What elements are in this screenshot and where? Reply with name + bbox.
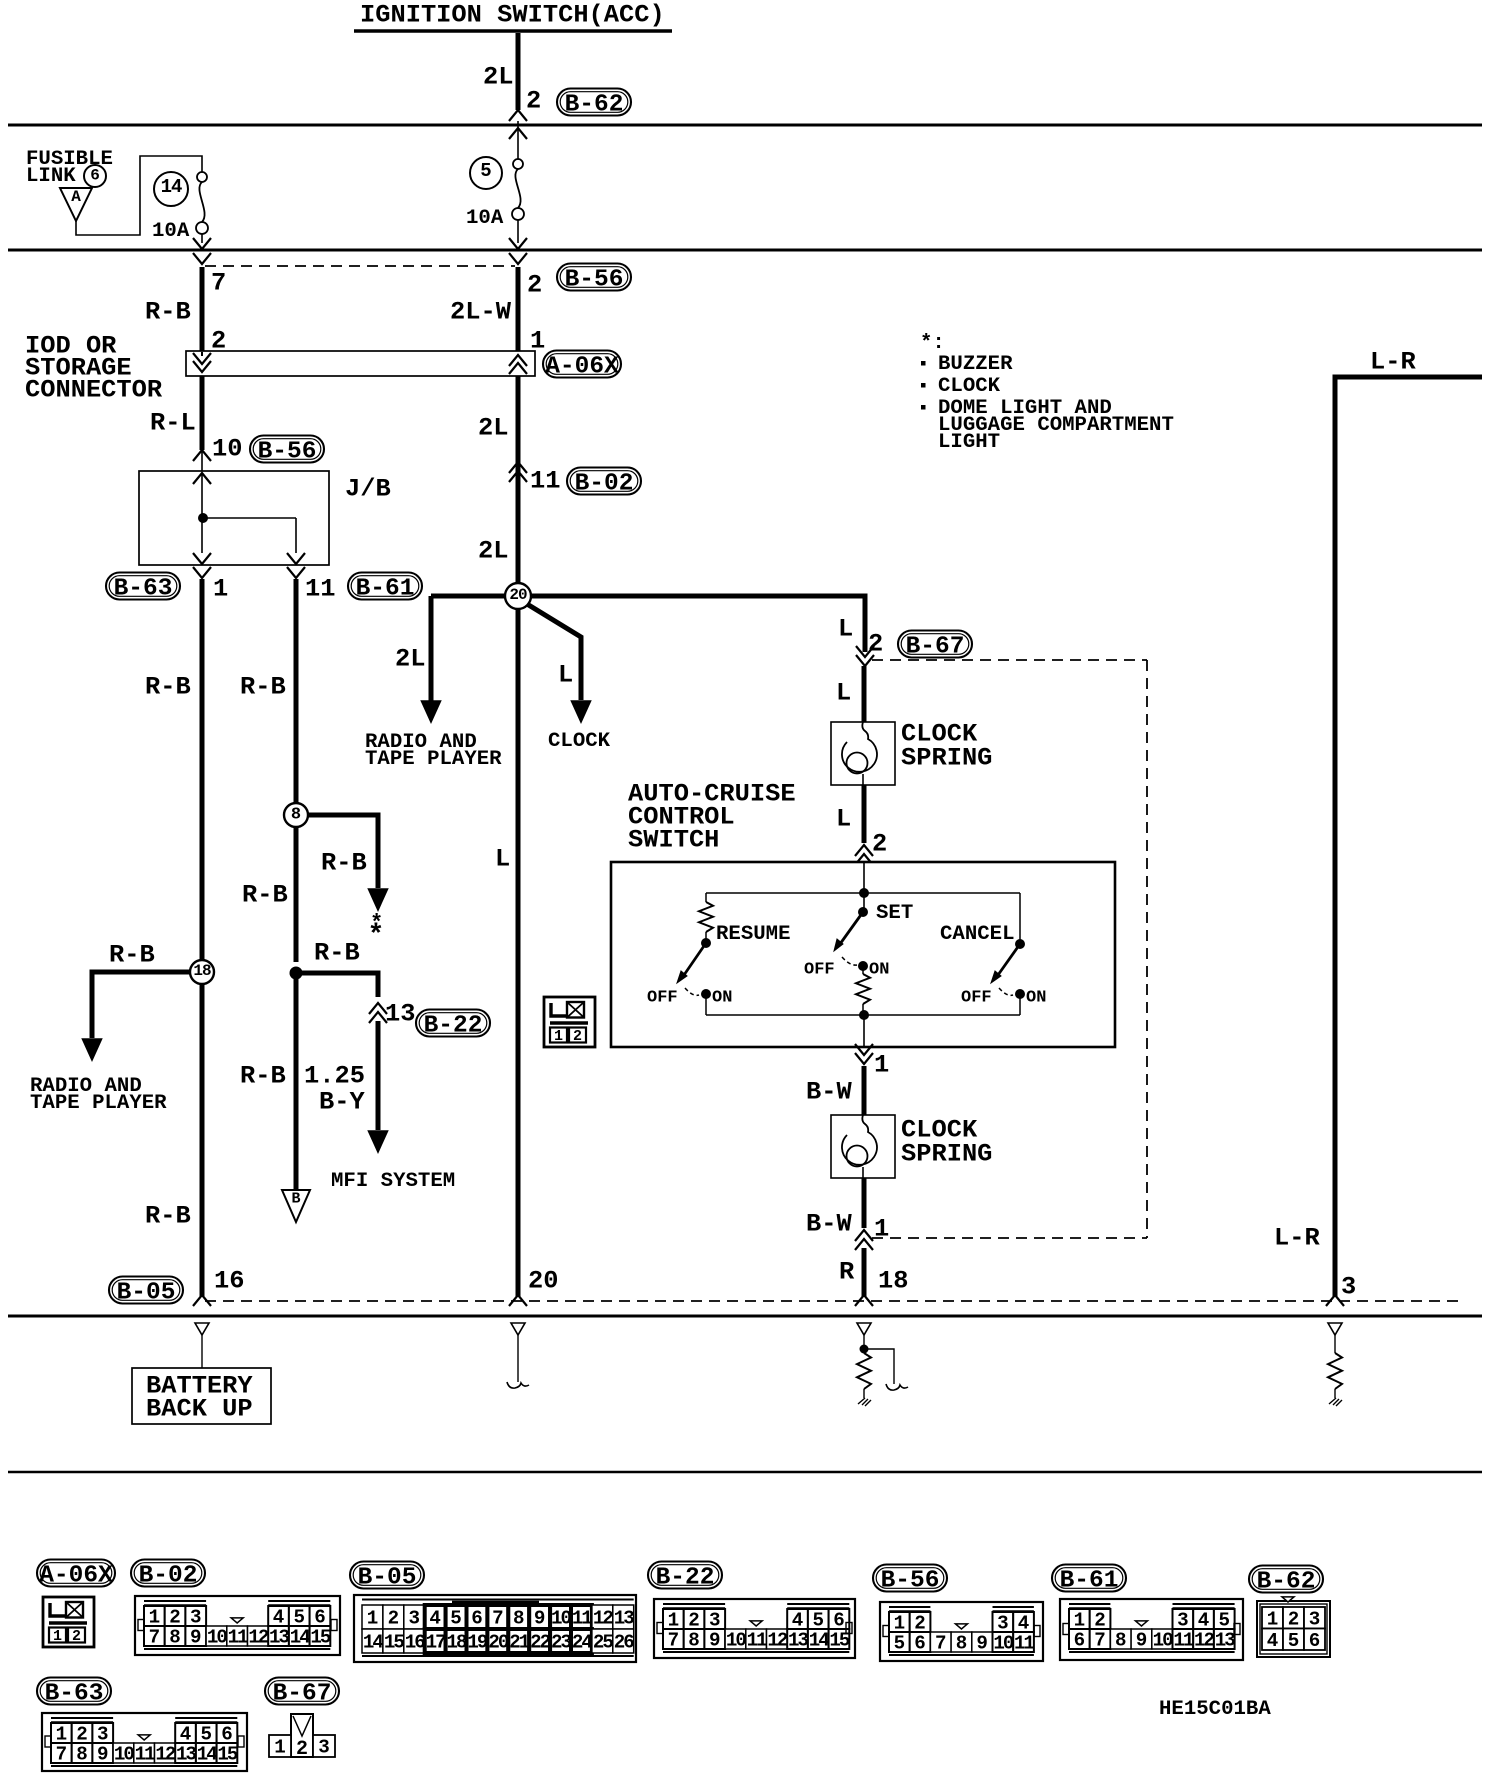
connector B-56 top xyxy=(557,264,631,291)
connector pinout A-06X xyxy=(43,1597,94,1647)
svg-text:2: 2 xyxy=(388,1608,400,1630)
svg-text:8: 8 xyxy=(688,1630,700,1652)
svg-text:11: 11 xyxy=(1173,1630,1194,1652)
fuse 14 symbol xyxy=(197,172,207,182)
wire B-W upper xyxy=(862,1066,867,1115)
ground 18: resistor network xyxy=(857,1323,871,1335)
svg-text:L-R: L-R xyxy=(1274,1224,1320,1253)
svg-text:2L: 2L xyxy=(478,537,508,566)
J/B exit chevrons xyxy=(193,553,211,564)
connector pinout B-62 label xyxy=(1249,1566,1323,1593)
svg-text:10: 10 xyxy=(993,1633,1014,1655)
wire 2L to junction 20 xyxy=(516,376,521,596)
svg-text:B-67: B-67 xyxy=(273,1681,332,1708)
svg-text:OFF: OFF xyxy=(961,989,992,1008)
junction 18 circle xyxy=(190,960,214,984)
svg-text:2: 2 xyxy=(1288,1608,1300,1630)
connector pinout B-02 label xyxy=(131,1560,205,1587)
svg-text:B-63: B-63 xyxy=(114,576,173,603)
junction dot middle R-B xyxy=(290,967,303,980)
svg-text:R-B: R-B xyxy=(242,881,288,910)
svg-text:2: 2 xyxy=(72,1628,81,1645)
svg-text:5: 5 xyxy=(450,1608,462,1630)
svg-text:B-02: B-02 xyxy=(139,1563,198,1590)
svg-text:24: 24 xyxy=(572,1632,593,1654)
svg-text:*:: *: xyxy=(920,332,945,355)
fusible link triangle A xyxy=(60,188,92,221)
svg-text:12: 12 xyxy=(593,1608,614,1630)
svg-text:IGNITION SWITCH(ACC): IGNITION SWITCH(ACC) xyxy=(360,1,665,30)
svg-text:11: 11 xyxy=(305,575,335,604)
bus line 1 (page divider) xyxy=(8,124,1482,127)
svg-text:6: 6 xyxy=(90,167,100,185)
svg-text:R-B: R-B xyxy=(145,298,191,327)
svg-text:14: 14 xyxy=(197,1744,218,1766)
svg-text:9: 9 xyxy=(709,1630,721,1652)
inline connector icon (column switch) xyxy=(544,997,595,1047)
clock spring 2 box xyxy=(831,1115,895,1178)
svg-text:16: 16 xyxy=(405,1632,426,1654)
branch to radio and tape player (left) xyxy=(92,972,190,975)
svg-text:8: 8 xyxy=(76,1744,88,1766)
connector pinout B-63 label xyxy=(37,1678,111,1705)
svg-text:LINK: LINK xyxy=(26,165,76,188)
svg-text:20: 20 xyxy=(509,586,527,604)
svg-text:B-W: B-W xyxy=(806,1210,852,1239)
svg-text:7: 7 xyxy=(935,1633,947,1655)
wire L below clock spring 1 xyxy=(862,785,867,843)
connector B-67 pill xyxy=(898,631,972,658)
junction circle 20 xyxy=(516,608,521,1297)
junction block J/B box xyxy=(139,471,329,565)
harness dashed boundary bottom xyxy=(205,1300,1460,1302)
svg-text:8: 8 xyxy=(291,806,301,825)
svg-text:1: 1 xyxy=(554,1028,563,1045)
branch 2L to radio and tape player xyxy=(429,596,434,702)
svg-text:B-22: B-22 xyxy=(424,1013,483,1040)
clock branch diagonal xyxy=(527,604,581,700)
svg-text:14: 14 xyxy=(161,176,182,198)
fusible link circled 6 xyxy=(84,165,106,187)
RESUME switch resistor xyxy=(699,902,713,932)
svg-text:B-05: B-05 xyxy=(117,1280,176,1307)
wire R-B pin7 chevron xyxy=(193,253,211,264)
svg-text:1: 1 xyxy=(367,1608,379,1630)
svg-text:L-R: L-R xyxy=(1370,348,1416,377)
clock spring 1 spiral xyxy=(842,722,877,772)
bus line 3 xyxy=(8,1315,1482,1318)
connector A-06X xyxy=(543,351,621,378)
svg-text:2L: 2L xyxy=(395,645,425,674)
wire L into clock spring 1 xyxy=(862,666,867,722)
svg-text:2: 2 xyxy=(526,87,541,116)
svg-text:6: 6 xyxy=(471,1608,483,1630)
svg-text:5: 5 xyxy=(480,160,491,182)
wire 2L-W xyxy=(516,267,521,352)
svg-text:OFF: OFF xyxy=(804,961,835,980)
svg-text:B-56: B-56 xyxy=(881,1568,940,1595)
wire B-W lower xyxy=(862,1178,867,1228)
svg-text:12: 12 xyxy=(155,1744,176,1766)
branch to MFI system xyxy=(296,973,378,997)
svg-text:1: 1 xyxy=(53,1628,62,1645)
svg-text:B-63: B-63 xyxy=(45,1681,104,1708)
svg-text:1.25: 1.25 xyxy=(304,1062,365,1091)
svg-text:18: 18 xyxy=(878,1267,908,1296)
wire R-B upper xyxy=(200,267,205,352)
svg-text:BACK UP: BACK UP xyxy=(146,1395,253,1424)
svg-text:A-06X: A-06X xyxy=(545,354,619,381)
svg-text:20: 20 xyxy=(528,1267,558,1296)
harness dashed boundary top xyxy=(205,265,515,267)
svg-text:2: 2 xyxy=(872,830,887,859)
connector B-22 pill xyxy=(416,1010,490,1037)
clock spring 1 box xyxy=(831,722,895,785)
auto-cruise switch outer box xyxy=(611,862,1115,1047)
connector pinout B-61 label xyxy=(1052,1565,1126,1592)
svg-text:1: 1 xyxy=(874,1215,889,1244)
svg-text:A-06X: A-06X xyxy=(39,1563,113,1590)
svg-text:B-02: B-02 xyxy=(575,471,634,498)
svg-text:26: 26 xyxy=(614,1632,635,1654)
clock spring 2 spiral xyxy=(842,1115,877,1165)
fuse 5 circle label xyxy=(470,157,502,189)
connector pinout B-22 xyxy=(654,1599,855,1658)
svg-text:4: 4 xyxy=(429,1608,441,1630)
svg-text:15: 15 xyxy=(310,1627,331,1649)
wire R-B middle (to junction 8) xyxy=(294,579,299,804)
svg-text:22: 22 xyxy=(530,1632,551,1654)
ground triangle B xyxy=(294,979,299,1190)
svg-text:12: 12 xyxy=(1194,1630,1215,1652)
wire R-L xyxy=(200,376,205,450)
svg-text:R-B: R-B xyxy=(314,939,360,968)
svg-text:L: L xyxy=(558,661,573,690)
svg-text:12: 12 xyxy=(767,1630,788,1652)
svg-text:7: 7 xyxy=(1094,1630,1106,1652)
dashed box around column/clock-spring xyxy=(872,659,1147,661)
svg-text:1: 1 xyxy=(1267,1608,1279,1630)
svg-text:2L: 2L xyxy=(478,414,508,443)
svg-text:11: 11 xyxy=(747,1630,768,1652)
svg-text:B-Y: B-Y xyxy=(319,1088,365,1117)
ground 16: triangle and battery backup xyxy=(195,1323,209,1335)
svg-text:7: 7 xyxy=(668,1630,680,1652)
connector pinout B-05 label xyxy=(350,1562,424,1589)
svg-text:16: 16 xyxy=(214,1267,244,1296)
top rail junction dot xyxy=(859,888,869,898)
svg-text:B-05: B-05 xyxy=(358,1565,417,1592)
svg-text:18: 18 xyxy=(193,962,211,980)
svg-text:3: 3 xyxy=(1341,1273,1356,1302)
J/B internal wire xyxy=(193,473,211,484)
svg-text:10: 10 xyxy=(207,1627,228,1649)
svg-text:ON: ON xyxy=(712,989,732,1008)
wire L-R right side xyxy=(1335,377,1482,1297)
svg-text:13: 13 xyxy=(385,1000,415,1029)
ground 20: hook xyxy=(511,1323,525,1335)
svg-text:B-61: B-61 xyxy=(1060,1568,1119,1595)
svg-text:L: L xyxy=(838,615,853,644)
svg-text:R-B: R-B xyxy=(109,941,155,970)
connector pinout B-22 label xyxy=(648,1562,722,1589)
svg-text:11: 11 xyxy=(1014,1633,1035,1655)
svg-text:B-62: B-62 xyxy=(1257,1569,1316,1596)
svg-text:L: L xyxy=(836,679,851,708)
radio/tape arrow (from junction 20) xyxy=(422,701,441,722)
svg-text:17: 17 xyxy=(426,1632,447,1654)
svg-text:6: 6 xyxy=(1074,1630,1086,1652)
svg-text:2: 2 xyxy=(527,271,542,300)
svg-text:13: 13 xyxy=(1215,1630,1236,1652)
svg-text:R-L: R-L xyxy=(150,409,196,438)
svg-text:11: 11 xyxy=(530,467,560,496)
svg-text:ON: ON xyxy=(1026,989,1046,1008)
svg-text:R-B: R-B xyxy=(145,673,191,702)
svg-text:B-56: B-56 xyxy=(565,267,624,294)
svg-text:2: 2 xyxy=(868,630,883,659)
wire R-B bottom chevron xyxy=(193,1295,211,1306)
svg-text:19: 19 xyxy=(467,1632,488,1654)
svg-text:20: 20 xyxy=(488,1632,509,1654)
svg-text:CONNECTOR: CONNECTOR xyxy=(25,376,163,405)
svg-text:10: 10 xyxy=(551,1608,572,1630)
IOD box left double chevron xyxy=(193,361,211,372)
svg-text:6: 6 xyxy=(1309,1630,1321,1652)
connector B-05 pill xyxy=(109,1277,183,1304)
svg-text:2: 2 xyxy=(573,1028,582,1045)
fusible link wire xyxy=(76,156,202,235)
connector pinout B-56 label xyxy=(873,1565,947,1592)
svg-text:RESUME: RESUME xyxy=(716,923,791,946)
svg-text:10: 10 xyxy=(726,1630,747,1652)
SET resistor xyxy=(862,966,864,974)
svg-text:J/B: J/B xyxy=(345,475,391,504)
svg-text:B-62: B-62 xyxy=(565,92,624,119)
switch inner rail box xyxy=(863,862,865,893)
svg-text:10A: 10A xyxy=(466,207,504,230)
svg-text:6: 6 xyxy=(914,1633,926,1655)
wire 2L from ignition switch xyxy=(516,33,521,110)
wire R to ground xyxy=(862,1248,867,1297)
svg-text:3: 3 xyxy=(1309,1608,1321,1630)
connector pinout A-06X label xyxy=(37,1560,115,1587)
connector B-63 xyxy=(106,573,180,600)
svg-text:11: 11 xyxy=(572,1608,593,1630)
svg-text:11: 11 xyxy=(135,1744,156,1766)
svg-text:9: 9 xyxy=(97,1744,109,1766)
connector pinout B-67 label xyxy=(265,1678,339,1705)
svg-text:CLOCK: CLOCK xyxy=(548,730,611,753)
svg-text:R-B: R-B xyxy=(240,1062,286,1091)
svg-text:2L-W: 2L-W xyxy=(450,298,512,327)
svg-text:BUZZER: BUZZER xyxy=(938,353,1013,376)
svg-text:13: 13 xyxy=(614,1608,635,1630)
svg-text:7: 7 xyxy=(211,269,226,298)
svg-text:B-61: B-61 xyxy=(356,576,415,603)
svg-text:13: 13 xyxy=(269,1627,290,1649)
svg-text:10: 10 xyxy=(1153,1630,1174,1652)
svg-text:10: 10 xyxy=(114,1744,135,1766)
svg-text:L: L xyxy=(836,805,851,834)
bus line 2 (page divider) xyxy=(8,249,1482,252)
connector pinout B-56 xyxy=(880,1602,1043,1661)
svg-text:1: 1 xyxy=(213,575,228,604)
svg-text:CLOCK: CLOCK xyxy=(938,375,1001,398)
fuse 14 arrow onto bus2 xyxy=(193,238,211,249)
svg-text:3: 3 xyxy=(408,1608,420,1630)
wire 2L chevron B-02 xyxy=(509,462,527,473)
J/B junction dot xyxy=(198,513,208,523)
svg-text:MFI SYSTEM: MFI SYSTEM xyxy=(331,1170,455,1193)
branch from junction 8 to buzzer/clock/dome xyxy=(308,815,378,888)
svg-text:2: 2 xyxy=(296,1738,308,1761)
RESUME lever xyxy=(684,943,706,975)
svg-text:13: 13 xyxy=(788,1630,809,1652)
svg-text:TAPE PLAYER: TAPE PLAYER xyxy=(365,748,502,771)
svg-text:4: 4 xyxy=(1267,1630,1279,1652)
svg-text:14: 14 xyxy=(809,1630,830,1652)
svg-text:14: 14 xyxy=(363,1632,384,1654)
IOD storage connector box xyxy=(186,351,535,376)
svg-text:9: 9 xyxy=(1136,1630,1148,1652)
svg-text:*: * xyxy=(368,920,385,951)
fuse 14 circle label xyxy=(154,172,188,206)
svg-text:B-56: B-56 xyxy=(258,439,317,466)
svg-text:OFF: OFF xyxy=(647,989,678,1008)
svg-text:SET: SET xyxy=(876,902,913,925)
svg-text:B-W: B-W xyxy=(806,1078,852,1107)
svg-text:8: 8 xyxy=(956,1633,968,1655)
svg-text:13: 13 xyxy=(176,1744,197,1766)
svg-text:SPRING: SPRING xyxy=(901,744,992,773)
svg-text:23: 23 xyxy=(551,1632,572,1654)
svg-text:9: 9 xyxy=(190,1627,202,1649)
SET switch xyxy=(863,893,865,912)
switch exit wire xyxy=(863,1015,865,1047)
svg-text:L: L xyxy=(495,845,510,874)
connector pinout B-02 xyxy=(135,1596,340,1655)
connector pinout B-05 xyxy=(354,1595,636,1662)
ground 3: resistor xyxy=(1328,1323,1342,1335)
svg-text:18: 18 xyxy=(447,1632,468,1654)
svg-text:7: 7 xyxy=(149,1627,161,1649)
svg-text:5: 5 xyxy=(894,1633,906,1655)
svg-text:8: 8 xyxy=(169,1627,181,1649)
wire R-B left (to B-05 pin16) xyxy=(200,579,205,960)
connector B-02 xyxy=(567,468,641,495)
connector B-62 xyxy=(557,89,631,116)
connector pinout B-67 xyxy=(291,1714,313,1757)
svg-text:11: 11 xyxy=(228,1627,249,1649)
svg-text:R-B: R-B xyxy=(321,849,367,878)
connector B-61 xyxy=(348,573,422,600)
svg-text:9: 9 xyxy=(976,1633,988,1655)
svg-text:A: A xyxy=(71,188,81,206)
svg-text:CANCEL: CANCEL xyxy=(940,923,1015,946)
svg-text:3: 3 xyxy=(318,1737,330,1759)
connector B-56 at J/B xyxy=(250,436,324,463)
wire L to clock spring xyxy=(860,596,865,652)
wire 2L-W chevron xyxy=(509,253,527,264)
svg-text:25: 25 xyxy=(593,1632,614,1654)
svg-text:8: 8 xyxy=(1115,1630,1127,1652)
svg-text:10: 10 xyxy=(212,435,242,464)
svg-text:14: 14 xyxy=(290,1627,311,1649)
svg-text:B-67: B-67 xyxy=(906,634,965,661)
svg-text:15: 15 xyxy=(384,1632,405,1654)
svg-text:21: 21 xyxy=(509,1632,530,1654)
svg-text:10A: 10A xyxy=(152,220,190,243)
svg-text:8: 8 xyxy=(513,1608,525,1630)
svg-text:SPRING: SPRING xyxy=(901,1140,992,1169)
connector pinout B-62 xyxy=(1257,1601,1330,1657)
chevron pin 13 B-22 xyxy=(369,1003,387,1014)
svg-text:7: 7 xyxy=(56,1744,68,1766)
junction circle 8 xyxy=(294,826,299,962)
svg-text:7: 7 xyxy=(492,1608,504,1630)
svg-text:R-B: R-B xyxy=(240,673,286,702)
svg-text:SWITCH: SWITCH xyxy=(628,826,719,855)
svg-text:TAPE PLAYER: TAPE PLAYER xyxy=(30,1092,167,1115)
svg-text:ON: ON xyxy=(869,961,889,980)
svg-text:1: 1 xyxy=(274,1737,286,1759)
svg-text:B: B xyxy=(291,1190,300,1207)
bus line 4 (bottom) xyxy=(8,1471,1482,1474)
svg-text:R-B: R-B xyxy=(145,1202,191,1231)
svg-text:LIGHT: LIGHT xyxy=(938,431,1000,454)
bottom rail junction dot xyxy=(859,1010,869,1020)
fuse 5 symbol xyxy=(513,159,523,169)
svg-text:R: R xyxy=(839,1258,855,1287)
IOD box right double chevron xyxy=(509,355,527,366)
fuse 5 arrow onto bus2 xyxy=(509,238,527,249)
svg-text:12: 12 xyxy=(248,1627,269,1649)
connector pinout B-61 xyxy=(1060,1599,1243,1660)
svg-text:15: 15 xyxy=(217,1744,238,1766)
svg-text:5: 5 xyxy=(1288,1630,1300,1652)
svg-text:9: 9 xyxy=(534,1608,546,1630)
connector pinout B-63 xyxy=(42,1713,247,1771)
wire crossing bus1 chevrons xyxy=(509,110,527,121)
svg-text:HE15C01BA: HE15C01BA xyxy=(1159,1698,1271,1721)
svg-text:1: 1 xyxy=(874,1051,889,1080)
battery back up box xyxy=(132,1368,271,1424)
svg-text:2L: 2L xyxy=(483,63,513,92)
svg-text:B-22: B-22 xyxy=(656,1565,715,1592)
